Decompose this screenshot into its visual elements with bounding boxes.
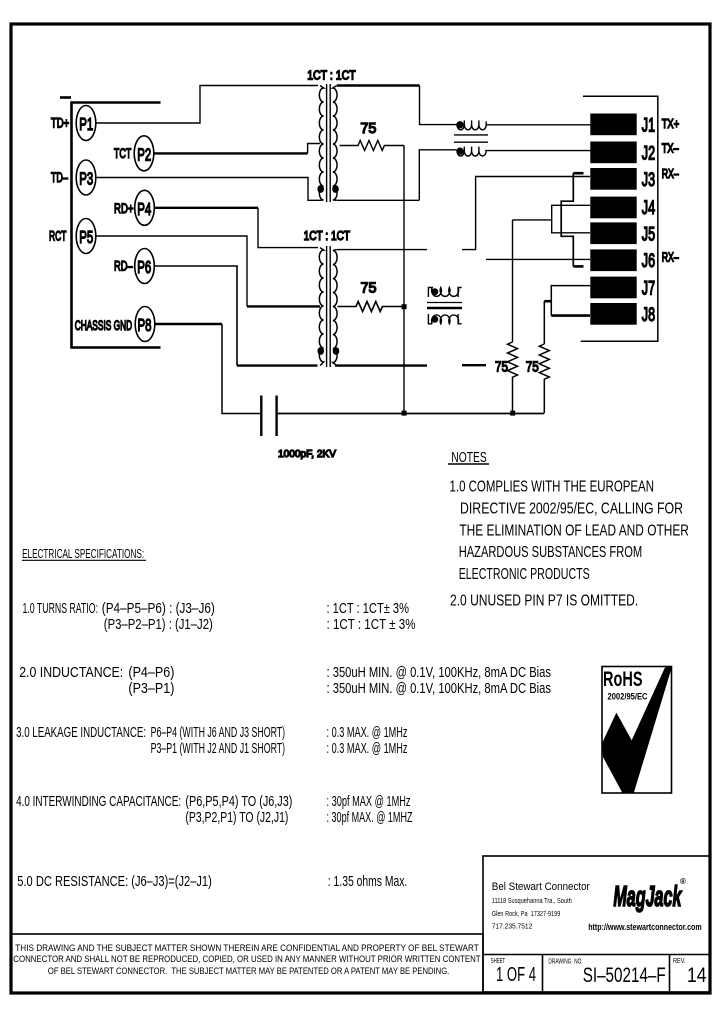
- svg-text:(P4–P6): (P4–P6): [128, 665, 174, 681]
- svg-text:: 0.3 MAX. @ 1MHz: : 0.3 MAX. @ 1MHz: [327, 725, 408, 741]
- svg-text:1.0 COMPLIES WITH THE EUROPEAN: 1.0 COMPLIES WITH THE EUROPEAN: [450, 479, 655, 496]
- choke CH2 dot bottom: [432, 317, 438, 323]
- svg-text:: 1CT : 1CT± 3%: : 1CT : 1CT± 3%: [327, 601, 410, 617]
- resistor R1: [340, 141, 404, 151]
- svg-text:RX–: RX–: [662, 167, 679, 181]
- svg-text:RCT: RCT: [49, 228, 67, 244]
- choke CH1 top coil: [457, 120, 591, 129]
- svg-text:P6: P6: [137, 257, 151, 277]
- RoHS checkmark: [602, 666, 671, 793]
- wire T2 top right: [337, 249, 427, 251]
- capacitor C1 plate left: [260, 396, 262, 437]
- pin P5: [76, 219, 96, 254]
- disclaimer text: [13, 943, 480, 977]
- svg-text:3.0 LEAKAGE INDUCTANCE:: 3.0 LEAKAGE INDUCTANCE:: [16, 725, 146, 741]
- choke CH2 top coil: [428, 288, 461, 298]
- junction dot rail-R1: [402, 411, 407, 416]
- svg-text:Glen Rock, Pa 17327-9199: Glen Rock, Pa 17327-9199: [492, 909, 561, 918]
- wire P3 to T1 bottom: [96, 178, 320, 201]
- jack pin J4: [591, 197, 655, 219]
- svg-text:OF BEL STEWART CONNECTOR. THE: OF BEL STEWART CONNECTOR. THE SUBJECT MA…: [48, 966, 449, 977]
- resistor R4 vertical lead: [543, 301, 545, 344]
- choke CH2 core: [427, 303, 462, 309]
- disclaimer box: [11, 934, 483, 993]
- svg-text:SI–50214–F: SI–50214–F: [583, 963, 666, 987]
- spec 3.0 leakage inductance: [16, 725, 407, 757]
- svg-text:J8: J8: [642, 305, 655, 326]
- svg-text:75: 75: [495, 359, 508, 376]
- svg-text:: 350uH MIN. @ 0.1V, 100KHz, 8: : 350uH MIN. @ 0.1V, 100KHz, 8mA DC Bias: [327, 665, 552, 681]
- svg-text:1CT : 1CT: 1CT : 1CT: [307, 69, 356, 83]
- svg-text:RoHS: RoHS: [603, 668, 643, 691]
- pin P2: [134, 136, 154, 171]
- transformer T2 core: [327, 246, 331, 367]
- svg-text:J6: J6: [642, 251, 655, 272]
- svg-text:(P3–P2–P1) : (J1–J2): (P3–P2–P1) : (J1–J2): [104, 617, 213, 633]
- electrical specifications heading: [22, 546, 146, 561]
- svg-text:MagJack: MagJack: [613, 881, 682, 913]
- RoHS logo box: [602, 666, 672, 793]
- svg-text:2.0 UNUSED PIN P7 IS OMITTED.: 2.0 UNUSED PIN P7 IS OMITTED.: [450, 593, 638, 610]
- svg-text:CHASSIS GND: CHASSIS GND: [75, 317, 133, 333]
- junction dot rail-R3: [510, 411, 515, 416]
- jack pin J7: [591, 277, 655, 299]
- pin P1: [76, 106, 96, 141]
- title block box: [483, 856, 710, 992]
- svg-text:14: 14: [687, 963, 707, 987]
- svg-text:J5: J5: [642, 224, 655, 245]
- T2 phase dot right: [333, 348, 338, 354]
- T1 phase dot left: [318, 186, 323, 192]
- pin P8: [135, 307, 155, 342]
- jack pin J6: [591, 250, 655, 272]
- wire R1 to ground rail: [403, 146, 405, 414]
- wire T1 top right to choke: [337, 84, 420, 87]
- svg-text:P4: P4: [137, 199, 151, 219]
- svg-text:ELECTRONIC PRODUCTS: ELECTRONIC PRODUCTS: [459, 566, 590, 583]
- pin box bracket: [72, 103, 161, 348]
- wire P8 to capacitor: [155, 323, 222, 325]
- svg-text:P8: P8: [138, 315, 152, 335]
- svg-text:THE ELIMINATION OF LEAD AND OT: THE ELIMINATION OF LEAD AND OTHER: [459, 523, 689, 540]
- svg-text:RX–: RX–: [662, 251, 679, 265]
- svg-text:J7: J7: [642, 278, 655, 299]
- wire T2 bottom right segment: [335, 364, 427, 366]
- wire segment right of choke CH2: [462, 364, 486, 366]
- svg-text:P3: P3: [79, 169, 93, 189]
- svg-text:(P3–P1): (P3–P1): [128, 681, 174, 697]
- wire P6 to T2 bottom: [155, 266, 238, 366]
- wire P5 to T2 center tap: [96, 236, 247, 306]
- svg-text:J1: J1: [642, 115, 655, 136]
- resistor R3 vertical lead: [512, 220, 514, 342]
- wire T1 bottom right to choke: [337, 150, 457, 201]
- svg-text:11118 Susquehanna Tra., South: 11118 Susquehanna Tra., South: [492, 896, 572, 905]
- wire P2 to T1 center tap: [154, 152, 308, 154]
- svg-text:5.0 DC RESISTANCE: (J6–J3)=(J2: 5.0 DC RESISTANCE: (J6–J3)=(J2–J1): [17, 874, 212, 890]
- svg-text:P5: P5: [79, 227, 93, 247]
- svg-text:75: 75: [526, 359, 539, 376]
- svg-text:THIS DRAWING AND THE SUBJECT M: THIS DRAWING AND THE SUBJECT MATTER SHOW…: [15, 943, 479, 954]
- jack pin J2: [591, 142, 655, 164]
- svg-text:: 1CT : 1CT ± 3%: : 1CT : 1CT ± 3%: [327, 617, 416, 633]
- svg-text:TCT: TCT: [114, 145, 132, 161]
- svg-text:P3–P1 (WITH J2 AND J1 SHORT): P3–P1 (WITH J2 AND J1 SHORT): [151, 741, 286, 757]
- svg-text:(P3,P2,P1) TO (J2,J1): (P3,P2,P1) TO (J2,J1): [185, 810, 288, 826]
- svg-text:: 30pf MAX. @ 1MHZ: : 30pf MAX. @ 1MHZ: [327, 810, 413, 826]
- resistor R2: [338, 302, 405, 312]
- jack pin J3: [591, 169, 655, 191]
- transformer T2 right winding: [333, 250, 337, 366]
- choke CH2 dot top: [432, 289, 438, 295]
- junction dot R2-R1 rail: [402, 304, 407, 309]
- svg-text:: 350uH MIN. @ 0.1V, 100KHz, 8: : 350uH MIN. @ 0.1V, 100KHz, 8mA DC Bias: [327, 681, 552, 697]
- jack pin J5: [591, 223, 655, 245]
- svg-text:http://www.stewartconnector.co: http://www.stewartconnector.com: [588, 922, 702, 933]
- wire segment to J3 riser: [462, 177, 590, 250]
- wire T2 bottom left segment: [237, 364, 318, 366]
- svg-text:TX–: TX–: [662, 142, 679, 156]
- jack pin J1: [591, 114, 655, 136]
- svg-text:P2: P2: [137, 144, 151, 164]
- spec 2.0 inductance: [19, 665, 551, 697]
- choke CH1 dot top: [457, 122, 463, 128]
- svg-text:TD+: TD+: [51, 115, 69, 131]
- svg-text:2.0 INDUCTANCE:: 2.0 INDUCTANCE:: [19, 665, 123, 681]
- choke CH1 core: [454, 135, 488, 142]
- pin P3: [76, 160, 96, 195]
- svg-text:(P4–P5–P6) : (J3–J6): (P4–P5–P6) : (J3–J6): [102, 601, 215, 617]
- svg-text:REV.: REV.: [673, 958, 686, 965]
- svg-text:DRAWING NO.: DRAWING NO.: [548, 959, 582, 966]
- wire J7 J8 tie: [551, 286, 590, 316]
- svg-text:75: 75: [360, 120, 376, 137]
- wire P4 to T2 top: [155, 207, 259, 209]
- svg-text:RD–: RD–: [114, 258, 133, 274]
- svg-text:: 0.3 MAX. @ 1MHz: : 0.3 MAX. @ 1MHz: [327, 741, 408, 757]
- svg-text:1 OF 4: 1 OF 4: [496, 964, 536, 986]
- stub near pin box: [60, 96, 71, 99]
- svg-text:®: ®: [680, 877, 686, 886]
- spec 5.0 dc resistance: [17, 874, 407, 890]
- spec 1.0 turns ratio: [23, 601, 416, 633]
- choke CH1 dot bottom: [457, 148, 463, 154]
- svg-text:J2: J2: [642, 143, 655, 164]
- svg-text:TD–: TD–: [51, 169, 68, 185]
- transformer T2 left winding: [319, 248, 323, 366]
- svg-text:1.0 TURNS RATIO:: 1.0 TURNS RATIO:: [23, 601, 99, 617]
- pin P6: [135, 249, 155, 284]
- svg-text:TX+: TX+: [662, 117, 680, 131]
- transformer T1 core: [327, 84, 331, 202]
- svg-text:DIRECTIVE 2002/95/EC, CALLING: DIRECTIVE 2002/95/EC, CALLING FOR: [460, 501, 683, 518]
- J4 J5 tie bracket: [552, 205, 590, 233]
- svg-text:P1: P1: [79, 114, 93, 134]
- svg-text:Bel Stewart Connector: Bel Stewart Connector: [492, 881, 590, 893]
- pin P4: [135, 190, 155, 225]
- svg-text:2002/95/EC: 2002/95/EC: [608, 692, 648, 703]
- wire P1 to T1 top: [96, 86, 318, 124]
- T1 phase dot right: [333, 186, 338, 192]
- svg-text:717.235.7512: 717.235.7512: [492, 922, 533, 931]
- wire J6 horizontal: [486, 258, 590, 260]
- capacitor C1 plate right: [275, 396, 277, 437]
- transformer T1 right winding: [333, 86, 337, 201]
- J3-J6 bus with jog: [561, 173, 573, 266]
- svg-text:1000pF, 2KV: 1000pF, 2KV: [278, 448, 336, 460]
- choke CH2 bottom coil: [428, 314, 461, 324]
- svg-text:P6–P4 (WITH J6 AND J3 SHORT): P6–P4 (WITH J6 AND J3 SHORT): [151, 725, 286, 741]
- resistor R4: [539, 344, 549, 413]
- svg-text:J3: J3: [642, 170, 655, 191]
- svg-text:HAZARDOUS SUBSTANCES FROM: HAZARDOUS SUBSTANCES FROM: [459, 544, 643, 561]
- svg-text:: 1.35 ohms Max.: : 1.35 ohms Max.: [328, 874, 408, 890]
- resistor R3: [508, 342, 518, 413]
- choke CH1 bottom coil: [457, 147, 591, 156]
- transformer T1 left winding: [319, 86, 323, 201]
- svg-text:(P6,P5,P4) TO (J6,J3): (P6,P5,P4) TO (J6,J3): [185, 794, 292, 810]
- svg-text:: 30pf MAX @ 1MHz: : 30pf MAX @ 1MHz: [327, 794, 411, 810]
- svg-text:CONNECTOR AND SHALL NOT BE REP: CONNECTOR AND SHALL NOT BE REPRODUCED, C…: [13, 954, 480, 965]
- ground rail: [277, 413, 545, 415]
- svg-text:ELECTRICAL SPECIFICATIONS:: ELECTRICAL SPECIFICATIONS:: [22, 546, 144, 561]
- spec 4.0 interwinding capacitance: [16, 794, 412, 826]
- T2 phase dot left: [318, 348, 323, 354]
- svg-text:J4: J4: [642, 198, 656, 219]
- svg-text:RD+: RD+: [114, 200, 134, 216]
- connector J bracket: [581, 96, 658, 341]
- jack pin J8: [591, 304, 655, 326]
- svg-text:75: 75: [361, 280, 377, 297]
- wire resistor R3 to J4 J5: [513, 219, 552, 221]
- svg-text:1CT : 1CT: 1CT : 1CT: [304, 229, 351, 243]
- notes text: [450, 479, 689, 610]
- NOTES heading: [448, 449, 489, 466]
- svg-text:4.0 INTERWINDING CAPACITANCE:: 4.0 INTERWINDING CAPACITANCE:: [16, 794, 181, 810]
